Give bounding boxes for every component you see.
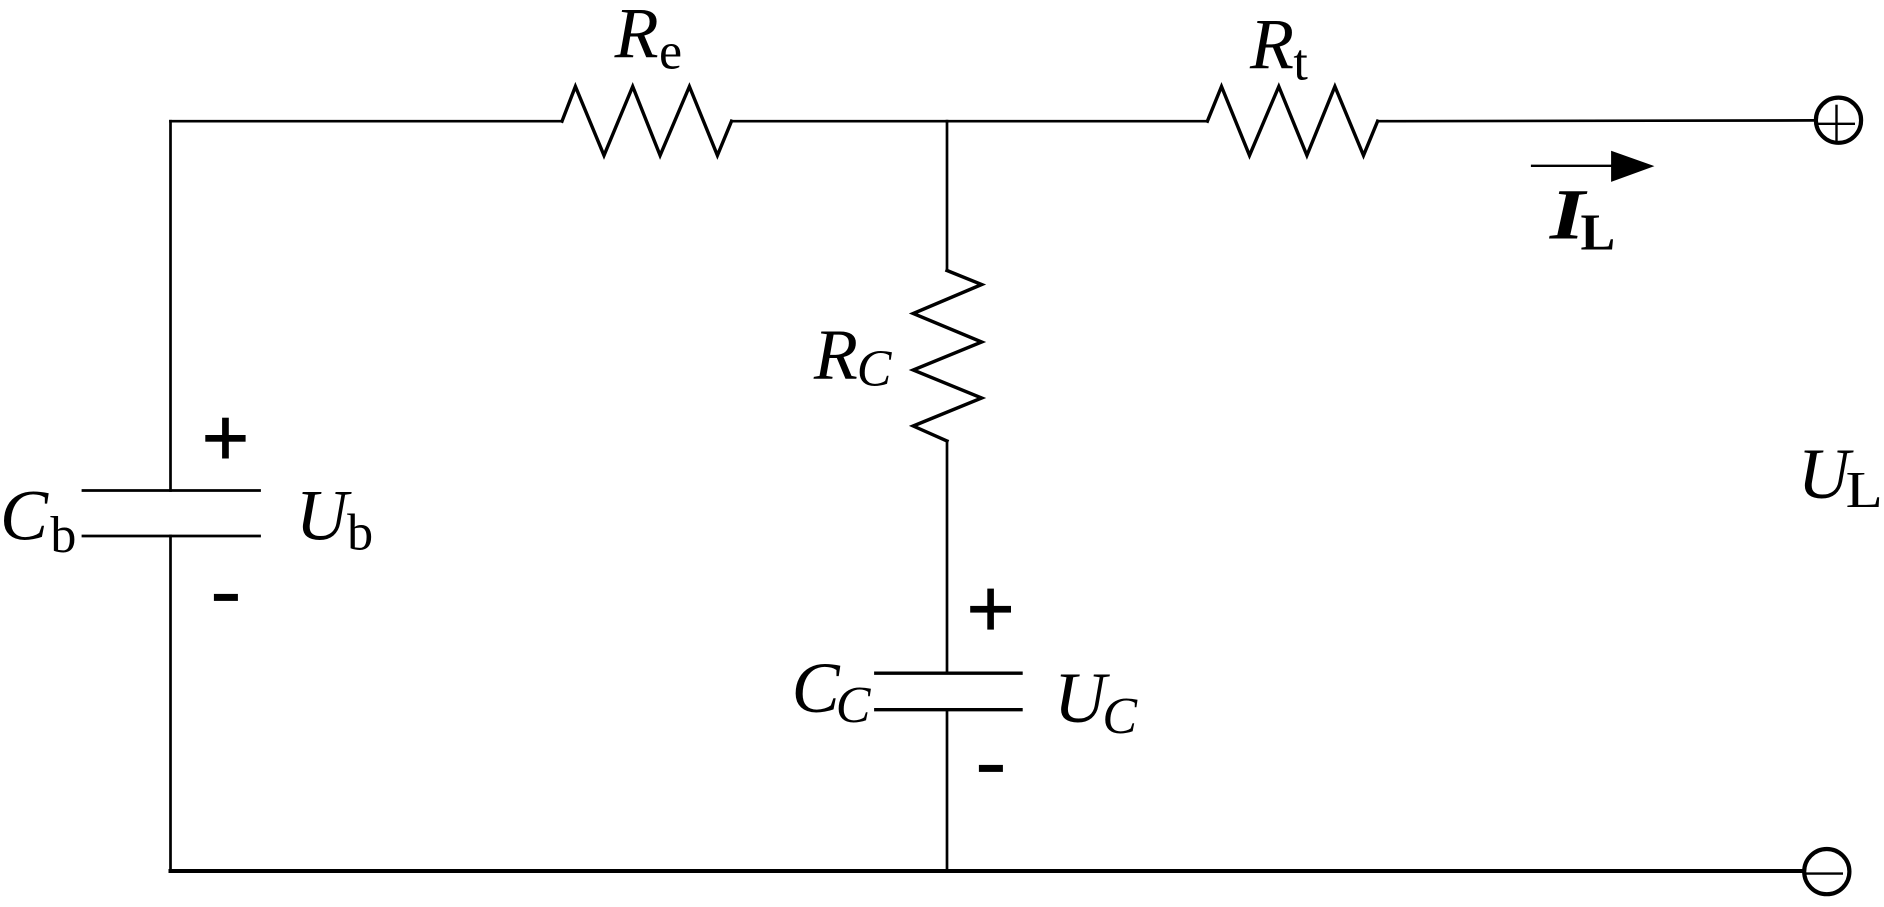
svg-text:R: R: [1249, 4, 1294, 84]
label Cb: [0, 475, 76, 563]
terminal negative circle: [1804, 849, 1849, 894]
plus sign of Cb: [205, 418, 245, 459]
terminal positive plus: [1818, 106, 1854, 141]
wire left vertical lower: [169, 536, 172, 871]
node junction of Re, Rt and RC branch: [946, 120, 949, 123]
resistor Rt: [1207, 87, 1377, 156]
plus sign of CC: [970, 589, 1011, 630]
wire top-left horizontal: [171, 120, 563, 123]
label IL: [1549, 174, 1615, 261]
resistor RC: [913, 271, 982, 442]
current arrow IL head: [1611, 151, 1654, 182]
capacitor CC top plate: [876, 672, 1021, 675]
wire middle vertical lower: [946, 710, 949, 871]
svg-text:R: R: [813, 315, 858, 395]
wire middle vertical upper: [946, 121, 949, 270]
svg-text:b: b: [50, 507, 76, 564]
node junction of CC branch and bottom wire: [946, 870, 949, 873]
capacitor CC bottom plate: [876, 708, 1021, 711]
wire bottom horizontal: [171, 869, 1803, 873]
svg-text:C: C: [792, 648, 841, 728]
label Re: [614, 0, 682, 81]
label CC: [792, 648, 872, 734]
wire top-right horizontal: [1378, 119, 1814, 122]
svg-text:e: e: [659, 24, 682, 81]
svg-text:C: C: [836, 677, 872, 734]
svg-text:C: C: [1102, 688, 1138, 745]
label RC: [813, 315, 893, 398]
label Ub: [296, 475, 373, 561]
svg-text:t: t: [1293, 34, 1308, 91]
wire left vertical upper: [169, 121, 172, 490]
resistor Re: [562, 87, 732, 156]
label UC: [1054, 658, 1138, 745]
svg-text:C: C: [857, 341, 893, 398]
wire middle vertical mid: [946, 441, 949, 673]
svg-text:b: b: [347, 504, 373, 561]
label UL: [1798, 434, 1883, 519]
wire top-middle horizontal: [732, 120, 1208, 123]
current arrow IL line: [1532, 165, 1612, 167]
svg-text:L: L: [1581, 204, 1616, 261]
svg-text:C: C: [0, 475, 49, 555]
capacitor Cb bottom plate: [83, 535, 260, 538]
minus sign of CC: [979, 765, 1003, 772]
terminal negative minus: [1805, 872, 1842, 874]
svg-text:L: L: [1846, 462, 1883, 519]
svg-text:U: U: [296, 475, 352, 555]
capacitor Cb top plate: [83, 489, 260, 492]
terminal positive circle: [1816, 98, 1861, 143]
label Rt: [1249, 4, 1308, 92]
svg-text:R: R: [614, 0, 659, 73]
minus sign of Cb: [214, 594, 238, 601]
